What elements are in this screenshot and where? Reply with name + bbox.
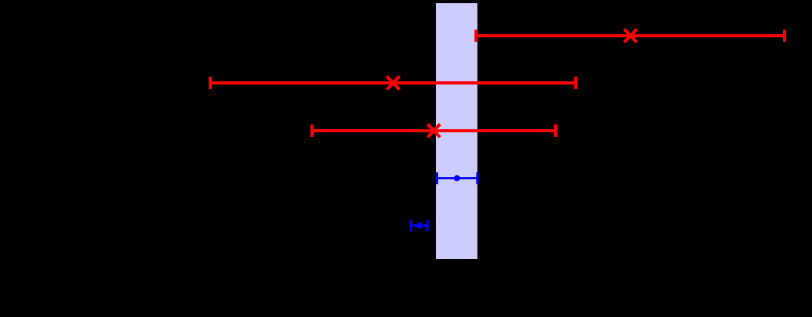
lavender band (436, 3, 477, 259)
red errorbar row 1 (476, 29, 785, 42)
blue errorbar row 4 (437, 172, 477, 184)
blue errorbar row 5 (411, 220, 428, 232)
red errorbar row 2 (210, 76, 575, 89)
red errorbar row 3 (312, 124, 556, 137)
